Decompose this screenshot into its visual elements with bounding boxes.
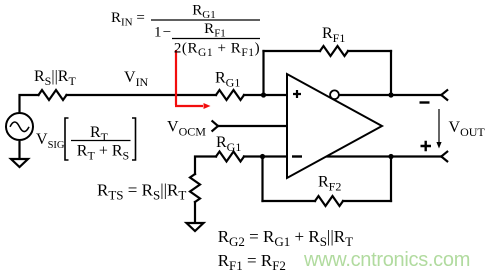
resistor RG1 top xyxy=(216,90,244,100)
wire VIN xyxy=(67,94,217,96)
wire to op-amp - input xyxy=(244,155,287,157)
op-amp inversion bubble xyxy=(330,90,339,99)
op-amp minus input mark xyxy=(292,155,302,157)
wire output bottom xyxy=(327,155,441,157)
wire RF1 left vertical xyxy=(262,51,264,95)
wire RF2 left vertical xyxy=(261,157,263,202)
wire RF1 right vertical xyxy=(390,51,392,95)
sine wave xyxy=(10,122,29,132)
wire output top xyxy=(339,94,441,96)
fraction bar main xyxy=(151,19,260,21)
svg-text:www.cntronics.com: www.cntronics.com xyxy=(303,249,470,271)
resistor RTS vertical xyxy=(190,174,200,202)
red annotation arrow xyxy=(175,50,203,106)
terminal output plus xyxy=(441,152,447,162)
resistor RS||RT xyxy=(39,90,67,100)
fraction bar inner xyxy=(172,38,260,40)
svg-text:1 −: 1 − xyxy=(154,25,171,41)
fraction bar xyxy=(71,140,131,142)
op-amp plus input mark xyxy=(293,90,301,98)
source VSIG circle xyxy=(6,113,33,140)
wire RF1 top left xyxy=(264,50,321,52)
resistor RF1 xyxy=(320,46,348,56)
formula VSIG bracket xyxy=(36,118,136,163)
wire RTS to ground xyxy=(194,202,196,222)
terminal output minus xyxy=(441,90,447,100)
wire lower branch corner xyxy=(195,157,216,175)
wire RF2 right vertical xyxy=(390,157,392,202)
wire source bottom xyxy=(18,142,20,158)
wire VOCM xyxy=(218,125,287,127)
bracket left xyxy=(65,118,69,160)
bracket right xyxy=(132,118,136,160)
resistor RG1 lower xyxy=(216,152,244,162)
op-amp U1 triangle xyxy=(287,74,382,178)
wire RF2 bottom left xyxy=(263,200,316,202)
output minus polarity xyxy=(420,101,430,103)
wire RF2 bottom right xyxy=(343,200,391,202)
ground RTS xyxy=(187,223,204,231)
terminal VOCM xyxy=(212,121,218,131)
output plus polarity xyxy=(421,141,432,152)
resistor RF2 xyxy=(315,196,343,206)
node junction dots xyxy=(261,92,266,97)
wire RF1 top right xyxy=(348,50,391,52)
ground source xyxy=(11,159,28,167)
wire to op-amp + input xyxy=(244,94,287,96)
wire source top xyxy=(20,95,39,112)
formula RIN top xyxy=(111,3,260,60)
VOUT arrow xyxy=(438,109,440,143)
